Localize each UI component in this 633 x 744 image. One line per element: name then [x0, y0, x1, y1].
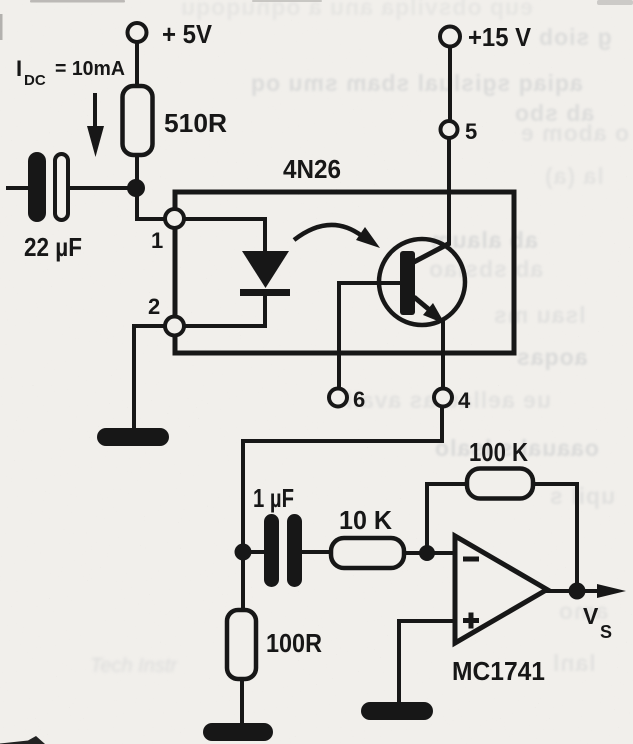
svg-text:MC1741: MC1741: [452, 656, 545, 686]
svg-text:510R: 510R: [164, 108, 227, 138]
svg-text:4: 4: [458, 388, 471, 413]
svg-text:1 µF: 1 µF: [253, 483, 294, 513]
svg-text:1: 1: [151, 228, 163, 253]
svg-text:2: 2: [148, 294, 160, 319]
svg-text:4N26: 4N26: [283, 154, 341, 184]
svg-text:DC: DC: [24, 72, 46, 89]
svg-text:6: 6: [353, 387, 365, 412]
svg-text:= 10mA: = 10mA: [55, 58, 125, 80]
svg-text:I: I: [16, 56, 22, 81]
svg-text:10 K: 10 K: [339, 505, 392, 535]
svg-text:100 K: 100 K: [469, 437, 528, 467]
svg-text:100R: 100R: [266, 628, 322, 658]
svg-text:+15 V: +15 V: [468, 22, 532, 52]
svg-text:S: S: [600, 622, 612, 642]
svg-text:22 µF: 22 µF: [24, 232, 82, 262]
svg-text:5: 5: [465, 119, 477, 144]
svg-text:+ 5V: + 5V: [162, 19, 213, 49]
svg-text:V: V: [583, 603, 599, 629]
